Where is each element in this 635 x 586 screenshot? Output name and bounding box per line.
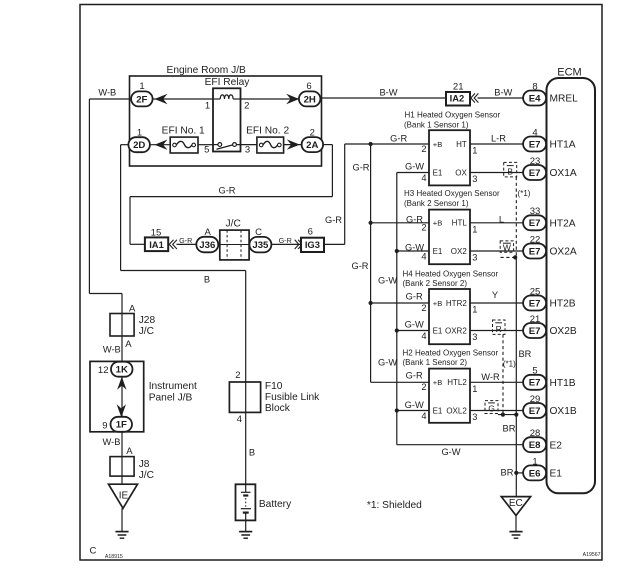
svg-text:G-R: G-R bbox=[325, 215, 342, 225]
svg-text:E7: E7 bbox=[529, 139, 541, 150]
svg-text:Panel J/B: Panel J/B bbox=[149, 393, 193, 404]
svg-text:B-W: B-W bbox=[379, 87, 397, 97]
svg-text:1: 1 bbox=[472, 224, 477, 234]
svg-text:Block: Block bbox=[265, 403, 291, 414]
svg-text:Battery: Battery bbox=[259, 499, 292, 510]
svg-text:BR: BR bbox=[501, 468, 514, 478]
svg-text:29: 29 bbox=[530, 394, 541, 405]
svg-text:IA1: IA1 bbox=[149, 239, 164, 250]
svg-text:HT2B: HT2B bbox=[550, 299, 576, 310]
svg-text:(*1): (*1) bbox=[518, 189, 531, 198]
svg-text:HT: HT bbox=[456, 140, 467, 149]
svg-text:G-R: G-R bbox=[352, 163, 369, 173]
svg-text:12: 12 bbox=[98, 365, 109, 376]
svg-text:H4 Heated Oxygen Sensor: H4 Heated Oxygen Sensor bbox=[403, 270, 499, 279]
svg-text:E7: E7 bbox=[529, 326, 541, 337]
svg-text:Instrument: Instrument bbox=[149, 381, 197, 392]
svg-text:R: R bbox=[496, 324, 502, 334]
svg-text:HT2A: HT2A bbox=[550, 218, 576, 229]
svg-text:F10: F10 bbox=[265, 381, 283, 392]
svg-text:G-W: G-W bbox=[405, 161, 424, 171]
svg-text:2: 2 bbox=[421, 382, 426, 392]
svg-text:2: 2 bbox=[244, 101, 249, 112]
svg-text:E1: E1 bbox=[433, 247, 443, 256]
svg-text:(Bank 1 Sensor 2): (Bank 1 Sensor 2) bbox=[403, 358, 468, 367]
svg-text:E1: E1 bbox=[550, 469, 563, 480]
svg-text:G-W: G-W bbox=[405, 400, 424, 410]
svg-text:E7: E7 bbox=[529, 246, 541, 257]
svg-text:EFI Relay: EFI Relay bbox=[205, 77, 251, 88]
svg-text:G-R: G-R bbox=[179, 236, 192, 245]
svg-text:W-B: W-B bbox=[103, 437, 121, 447]
svg-text:1: 1 bbox=[472, 146, 477, 156]
svg-text:E2: E2 bbox=[550, 440, 563, 451]
svg-text:+B: +B bbox=[433, 378, 443, 387]
svg-text:E7: E7 bbox=[529, 218, 541, 229]
svg-text:EC: EC bbox=[509, 498, 523, 509]
svg-text:A: A bbox=[125, 339, 132, 350]
svg-text:E6: E6 bbox=[529, 468, 541, 479]
svg-text:G-R: G-R bbox=[351, 261, 368, 271]
svg-text:2: 2 bbox=[310, 127, 315, 138]
svg-text:2D: 2D bbox=[133, 140, 145, 151]
svg-text:ECM: ECM bbox=[557, 66, 581, 78]
svg-text:G-W: G-W bbox=[405, 243, 424, 253]
svg-text:OX2A: OX2A bbox=[550, 247, 577, 258]
svg-text:J8: J8 bbox=[139, 459, 150, 470]
svg-text:28: 28 bbox=[530, 428, 541, 439]
svg-text:21: 21 bbox=[530, 314, 541, 325]
svg-text:BR: BR bbox=[518, 349, 531, 359]
svg-text:+B: +B bbox=[433, 299, 443, 308]
svg-text:L: L bbox=[499, 215, 504, 225]
svg-text:4: 4 bbox=[421, 411, 426, 421]
svg-text:G-W: G-W bbox=[441, 447, 460, 457]
svg-text:Fusible Link: Fusible Link bbox=[265, 392, 320, 403]
svg-text:E1: E1 bbox=[433, 407, 443, 416]
svg-text:6: 6 bbox=[308, 226, 313, 237]
svg-text:A18915: A18915 bbox=[105, 554, 123, 560]
svg-text:J35: J35 bbox=[252, 240, 269, 251]
svg-text:HTR2: HTR2 bbox=[446, 299, 467, 308]
svg-text:G-W: G-W bbox=[405, 319, 424, 329]
svg-text:G-R: G-R bbox=[279, 236, 292, 245]
svg-text:2: 2 bbox=[421, 144, 426, 154]
svg-text:4: 4 bbox=[421, 331, 426, 341]
svg-text:1: 1 bbox=[472, 384, 477, 394]
svg-text:E8: E8 bbox=[529, 440, 541, 451]
svg-text:4: 4 bbox=[421, 252, 426, 262]
svg-text:J/C: J/C bbox=[226, 219, 241, 230]
svg-text:J36: J36 bbox=[199, 240, 215, 251]
svg-text:3: 3 bbox=[472, 253, 477, 263]
svg-text:B-W: B-W bbox=[494, 87, 512, 97]
svg-text:MREL: MREL bbox=[550, 94, 579, 105]
svg-text:EFI No. 1: EFI No. 1 bbox=[162, 125, 205, 136]
svg-text:2F: 2F bbox=[136, 94, 147, 105]
svg-text:(Bank 2 Sensor 1): (Bank 2 Sensor 1) bbox=[404, 199, 469, 208]
svg-text:OXR2: OXR2 bbox=[445, 327, 467, 336]
svg-text:OXL2: OXL2 bbox=[446, 407, 467, 416]
svg-text:2: 2 bbox=[235, 370, 240, 381]
svg-text:(*1): (*1) bbox=[503, 359, 516, 368]
svg-text:W-B: W-B bbox=[98, 88, 116, 98]
svg-text:G-R: G-R bbox=[406, 370, 423, 380]
svg-text:5: 5 bbox=[204, 145, 209, 156]
svg-text:A: A bbox=[129, 303, 136, 314]
svg-text:1: 1 bbox=[137, 127, 142, 138]
svg-text:E7: E7 bbox=[529, 168, 541, 179]
svg-text:23: 23 bbox=[530, 156, 541, 167]
svg-text:W-B: W-B bbox=[103, 345, 121, 355]
svg-text:*1: Shielded: *1: Shielded bbox=[367, 500, 422, 511]
svg-text:33: 33 bbox=[530, 206, 541, 217]
svg-text:G-R: G-R bbox=[406, 292, 423, 302]
svg-text:C: C bbox=[255, 227, 262, 238]
svg-text:25: 25 bbox=[530, 286, 541, 297]
svg-text:OX: OX bbox=[455, 169, 467, 178]
svg-text:+B: +B bbox=[433, 140, 443, 149]
svg-text:OX1A: OX1A bbox=[550, 168, 577, 179]
svg-text:B: B bbox=[249, 448, 255, 458]
svg-text:1: 1 bbox=[472, 305, 477, 315]
svg-text:15: 15 bbox=[151, 227, 162, 238]
svg-text:HTL: HTL bbox=[452, 219, 468, 228]
svg-text:B: B bbox=[204, 274, 210, 284]
svg-text:E4: E4 bbox=[529, 93, 541, 104]
svg-text:(Bank 2 Sensor 2): (Bank 2 Sensor 2) bbox=[403, 279, 468, 288]
svg-text:E7: E7 bbox=[529, 378, 541, 389]
svg-text:2H: 2H bbox=[304, 94, 316, 105]
svg-text:Y: Y bbox=[492, 290, 498, 300]
svg-text:J/C: J/C bbox=[139, 470, 154, 481]
svg-text:8: 8 bbox=[532, 81, 537, 92]
svg-text:3: 3 bbox=[472, 174, 477, 184]
svg-text:2: 2 bbox=[421, 303, 426, 313]
svg-text:H1 Heated Oxygen Sensor: H1 Heated Oxygen Sensor bbox=[405, 111, 501, 120]
svg-text:(Bank 1 Sensor 1): (Bank 1 Sensor 1) bbox=[404, 120, 469, 129]
svg-text:1: 1 bbox=[532, 456, 537, 467]
svg-text:3: 3 bbox=[472, 412, 477, 422]
svg-text:22: 22 bbox=[530, 234, 541, 245]
svg-text:HT1A: HT1A bbox=[550, 140, 576, 151]
svg-text:1F: 1F bbox=[116, 420, 127, 431]
svg-text:1: 1 bbox=[139, 81, 144, 92]
svg-text:IA2: IA2 bbox=[450, 92, 465, 103]
svg-text:3: 3 bbox=[245, 145, 250, 156]
svg-text:Engine Room J/B: Engine Room J/B bbox=[167, 65, 246, 76]
svg-text:G-W: G-W bbox=[378, 276, 397, 286]
svg-text:E1: E1 bbox=[433, 327, 443, 336]
svg-text:A: A bbox=[205, 227, 212, 238]
svg-text:IG3: IG3 bbox=[305, 239, 320, 250]
svg-text:5: 5 bbox=[532, 366, 537, 377]
svg-text:OX1B: OX1B bbox=[550, 406, 577, 417]
svg-text:C: C bbox=[89, 546, 96, 557]
svg-text:2A: 2A bbox=[306, 140, 318, 151]
svg-text:H3 Heated Oxygen Sensor: H3 Heated Oxygen Sensor bbox=[404, 189, 500, 198]
svg-text:G-R: G-R bbox=[406, 215, 423, 225]
svg-text:4: 4 bbox=[237, 414, 242, 425]
svg-text:9: 9 bbox=[102, 420, 107, 431]
svg-text:EFI No. 2: EFI No. 2 bbox=[246, 125, 289, 136]
svg-text:J28: J28 bbox=[139, 315, 156, 326]
svg-text:4: 4 bbox=[421, 173, 426, 183]
svg-text:3: 3 bbox=[472, 332, 477, 342]
svg-text:E7: E7 bbox=[529, 406, 541, 417]
svg-text:E7: E7 bbox=[529, 298, 541, 309]
svg-text:G-W: G-W bbox=[378, 357, 397, 367]
svg-text:W-R: W-R bbox=[481, 372, 500, 382]
svg-text:J/C: J/C bbox=[139, 326, 154, 337]
svg-text:HT1B: HT1B bbox=[550, 378, 576, 389]
svg-text:1K: 1K bbox=[116, 365, 128, 376]
svg-text:6: 6 bbox=[306, 81, 311, 92]
svg-text:G-R: G-R bbox=[218, 185, 235, 195]
svg-text:IE: IE bbox=[119, 491, 129, 502]
svg-text:OX2B: OX2B bbox=[550, 326, 577, 337]
svg-text:E1: E1 bbox=[433, 169, 443, 178]
svg-text:+B: +B bbox=[433, 219, 443, 228]
svg-text:21: 21 bbox=[453, 81, 464, 92]
svg-text:G-R: G-R bbox=[390, 134, 407, 144]
svg-text:W: W bbox=[503, 243, 511, 253]
svg-text:B: B bbox=[507, 167, 513, 177]
svg-text:4: 4 bbox=[532, 127, 537, 138]
svg-text:HTL2: HTL2 bbox=[447, 378, 467, 387]
svg-text:L-R: L-R bbox=[491, 134, 506, 144]
svg-text:1: 1 bbox=[205, 101, 210, 112]
svg-text:BR: BR bbox=[503, 424, 516, 434]
svg-text:A: A bbox=[126, 446, 133, 457]
svg-text:OX2: OX2 bbox=[451, 247, 468, 256]
svg-text:G: G bbox=[488, 403, 495, 413]
svg-text:H2 Heated Oxygen Sensor: H2 Heated Oxygen Sensor bbox=[403, 349, 499, 358]
svg-text:A19567: A19567 bbox=[583, 552, 601, 558]
